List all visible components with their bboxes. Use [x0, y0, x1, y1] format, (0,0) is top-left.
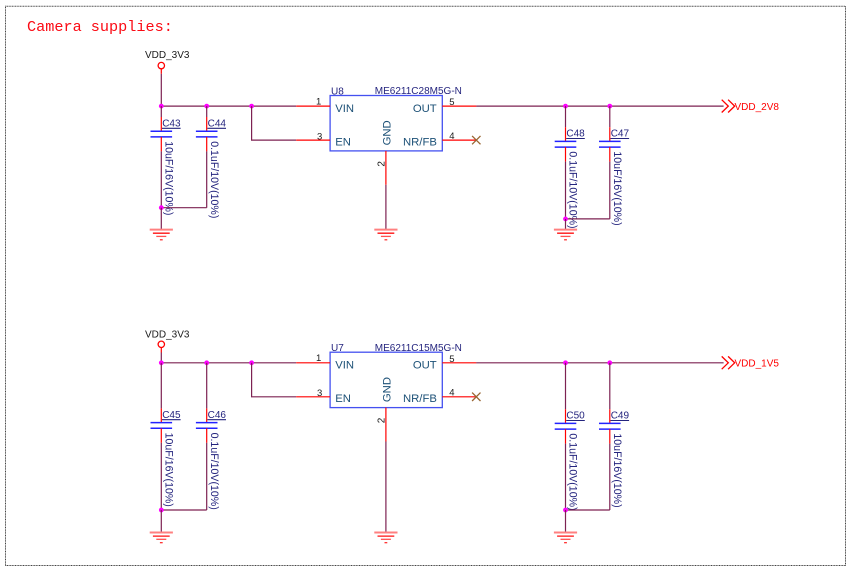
capacitor C44 [196, 106, 218, 208]
pin 1 VIN [296, 97, 354, 115]
svg-text:GND: GND [381, 120, 393, 145]
wire EN loop [252, 106, 297, 140]
junction [563, 508, 568, 513]
svg-text:3: 3 [317, 131, 322, 142]
wire cap bottoms join [566, 218, 610, 220]
svg-text:GND: GND [381, 377, 393, 402]
junction [563, 104, 568, 109]
value 0.1uF/10V(10%) of C48 [567, 151, 579, 228]
pin 2 GND [376, 377, 393, 442]
svg-text:0.1uF/10V(10%): 0.1uF/10V(10%) [567, 151, 579, 228]
no-connect cross [472, 136, 480, 144]
svg-text:1: 1 [316, 353, 321, 364]
port VDD_1V5 [722, 356, 780, 369]
svg-text:C45: C45 [162, 410, 181, 421]
value 0.1uF/10V(10%) of C50 [567, 433, 579, 510]
capacitor C48 [555, 106, 577, 219]
svg-text:U8: U8 [331, 86, 344, 97]
svg-text:10uF/16V(10%): 10uF/16V(10%) [163, 433, 175, 507]
pin 5 OUT [413, 354, 477, 372]
wire cap bottoms join [161, 207, 206, 209]
label C48 [566, 129, 585, 140]
wire EN loop [252, 363, 297, 397]
svg-text:VIN: VIN [335, 360, 354, 372]
op-amp U8 regulator body [330, 96, 442, 151]
junction [249, 360, 254, 365]
junction [204, 360, 209, 365]
capacitor C50 [555, 363, 577, 510]
junction [563, 360, 568, 365]
wire GND pin to ground [385, 185, 387, 230]
power symbol VDD_3V3 [145, 50, 190, 74]
junction [607, 360, 612, 365]
wire to ground [160, 208, 162, 230]
pin 3 EN [296, 131, 351, 148]
svg-text:5: 5 [449, 97, 454, 108]
wire output rail [476, 362, 723, 364]
ground [554, 533, 577, 543]
junction [204, 104, 209, 109]
junction [159, 508, 164, 513]
wire VDD_3V3 to rail [160, 353, 162, 363]
wire cap bottoms join [161, 509, 206, 511]
svg-text:OUT: OUT [413, 360, 437, 372]
value 10uF/16V(10%) of C43 [163, 141, 175, 215]
label C46 [207, 410, 226, 421]
junction [159, 104, 164, 109]
svg-text:Camera supplies:: Camera supplies: [27, 18, 173, 36]
svg-text:C44: C44 [208, 118, 227, 129]
port VDD_2V8 [722, 100, 780, 113]
wire to ground [160, 510, 162, 533]
svg-text:VDD_3V3: VDD_3V3 [145, 50, 190, 61]
pin 5 OUT [413, 97, 477, 115]
svg-text:EN: EN [335, 393, 351, 405]
svg-text:NR/FB: NR/FB [403, 393, 437, 405]
wire input rail [161, 362, 296, 364]
svg-text:ME6211C15M5G-N: ME6211C15M5G-N [375, 343, 462, 354]
svg-text:VDD_1V5: VDD_1V5 [735, 359, 780, 370]
capacitor C43 [151, 106, 173, 208]
label C43 [162, 118, 181, 129]
svg-text:2: 2 [376, 417, 387, 423]
label C49 [611, 411, 630, 422]
value 10uF/16V(10%) of C47 [611, 151, 623, 225]
capacitor C47 [599, 106, 621, 219]
svg-text:U7: U7 [331, 343, 344, 354]
pin 2 GND [376, 120, 393, 185]
ground [150, 230, 173, 240]
wire input rail [161, 105, 296, 107]
junction [563, 217, 568, 222]
svg-text:C46: C46 [208, 410, 227, 421]
value 10uF/16V(10%) of C49 [611, 433, 623, 507]
svg-text:3: 3 [317, 388, 322, 399]
svg-text:10uF/16V(10%): 10uF/16V(10%) [611, 151, 623, 225]
svg-text:ME6211C28M5G-N: ME6211C28M5G-N [375, 86, 462, 97]
label C47 [611, 129, 630, 140]
svg-text:VIN: VIN [335, 103, 354, 115]
pin 4 NR/FB [403, 131, 476, 149]
svg-text:0.1uF/10V(10%): 0.1uF/10V(10%) [567, 433, 579, 510]
junction [159, 360, 164, 365]
wire to ground [565, 510, 567, 533]
svg-text:4: 4 [449, 131, 454, 142]
wire to ground [565, 219, 567, 230]
svg-text:C43: C43 [162, 118, 181, 129]
value 0.1uF/10V(10%) of C46 [208, 433, 220, 510]
svg-text:5: 5 [449, 354, 454, 365]
wire VDD_3V3 to rail [160, 74, 162, 106]
op-amp U7 regulator body [330, 352, 442, 407]
pin 1 VIN [296, 353, 354, 371]
svg-text:0.1uF/10V(10%): 0.1uF/10V(10%) [208, 141, 220, 218]
value 0.1uF/10V(10%) of C44 [208, 141, 220, 218]
svg-text:10uF/16V(10%): 10uF/16V(10%) [163, 141, 175, 215]
wire cap bottoms join [566, 509, 610, 511]
junction [607, 104, 612, 109]
ground [374, 533, 397, 543]
capacitor C49 [599, 363, 621, 510]
svg-text:1: 1 [316, 97, 321, 108]
svg-text:OUT: OUT [413, 103, 437, 115]
svg-text:0.1uF/10V(10%): 0.1uF/10V(10%) [208, 433, 220, 510]
svg-text:EN: EN [335, 136, 351, 148]
junction [249, 104, 254, 109]
ground [554, 230, 577, 240]
wire GND pin to ground [385, 442, 387, 533]
capacitor C46 [196, 363, 218, 510]
svg-text:VDD_2V8: VDD_2V8 [735, 102, 780, 113]
pin 4 NR/FB [403, 388, 476, 406]
junction [159, 205, 164, 210]
label C50 [566, 411, 585, 422]
capacitor C45 [151, 363, 173, 510]
wire output rail [476, 105, 723, 107]
ground [374, 230, 397, 240]
value 10uF/16V(10%) of C45 [163, 433, 175, 507]
power symbol VDD_3V3 [145, 330, 190, 353]
no-connect cross [472, 393, 480, 401]
svg-text:4: 4 [449, 388, 454, 399]
ground [150, 533, 173, 543]
pin 3 EN [296, 388, 351, 405]
svg-text:10uF/16V(10%): 10uF/16V(10%) [611, 433, 623, 507]
svg-text:NR/FB: NR/FB [403, 136, 437, 148]
svg-text:2: 2 [376, 161, 387, 167]
label C44 [207, 118, 226, 129]
label C45 [162, 410, 181, 421]
svg-text:VDD_3V3: VDD_3V3 [145, 330, 190, 341]
